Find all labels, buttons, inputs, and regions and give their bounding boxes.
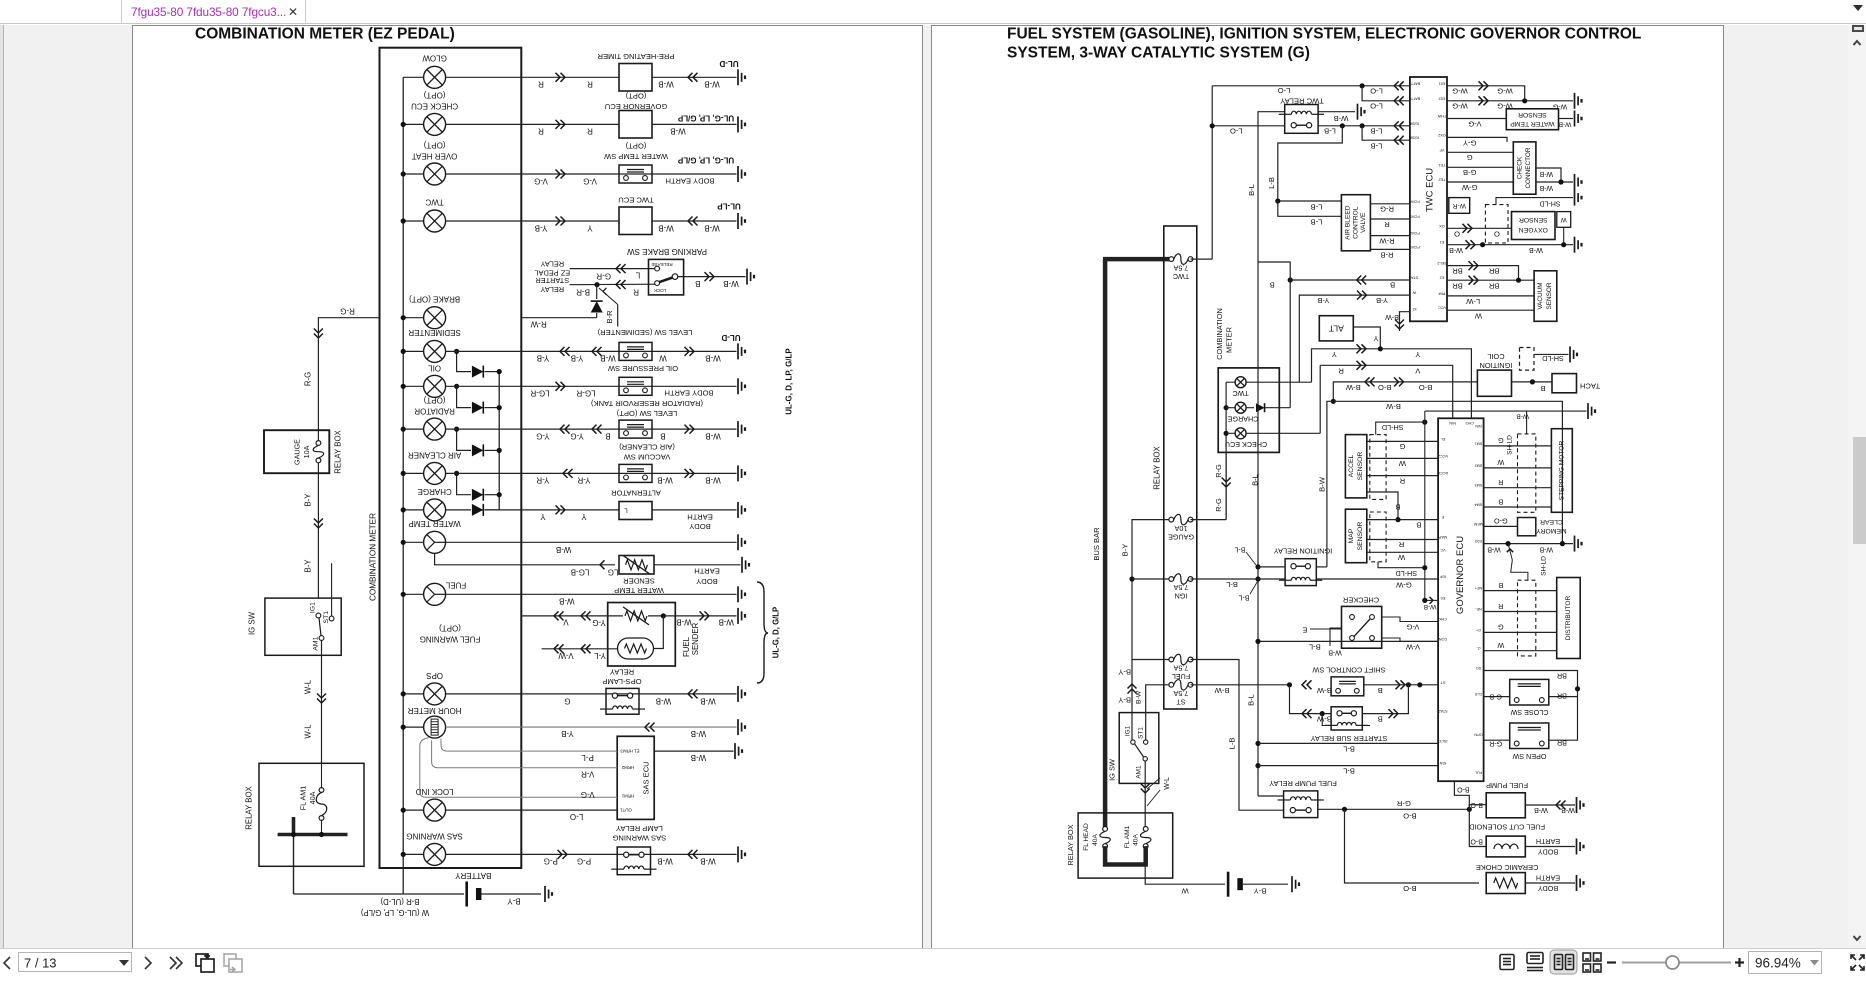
svg-text:LAMP RELAY: LAMP RELAY (616, 824, 663, 833)
svg-text:BODY: BODY (689, 522, 711, 531)
bus bar relay box (278, 833, 348, 837)
oil pressure sw (619, 377, 652, 395)
svg-text:NE-: NE- (1474, 607, 1481, 611)
wire Y row (1312, 349, 1472, 419)
svg-text:BODY EARTH: BODY EARTH (665, 177, 714, 186)
svg-text:ACCEL: ACCEL (1348, 454, 1355, 477)
ig sw right page (1119, 713, 1159, 784)
svg-text:B: B (1395, 503, 1400, 512)
svg-text:NIN: NIN (1449, 421, 1456, 425)
svg-text:ALTERNATOR: ALTERNATOR (611, 489, 661, 498)
ground CHARGE (738, 502, 745, 518)
wire solenoid left (1469, 809, 1486, 846)
wire L-B down to air bleed (1278, 126, 1343, 201)
wires b-l isc (1255, 741, 1260, 746)
lamp row y=386.3 (403, 385, 423, 387)
ground twc relay (1358, 104, 1365, 120)
svg-text:UL-G, LP, G/LP: UL-G, LP, G/LP (677, 156, 734, 165)
lamp row y=124.4 (403, 123, 423, 125)
wires air bleed to ecu (1370, 203, 1410, 205)
open sw (1510, 723, 1549, 749)
bus bar right page (1103, 259, 1108, 829)
svg-text:METER: METER (1225, 327, 1234, 353)
lamp row y=174.0 (403, 173, 423, 175)
svg-text:IG: IG (1412, 307, 1416, 311)
fl am1 fuse (1140, 827, 1151, 849)
wire fuel pump relay to solenoids (1318, 808, 1470, 810)
svg-text:ST: ST (1440, 680, 1446, 684)
wire stepping shield up (1526, 411, 1528, 434)
wire G-O memory (1484, 525, 1518, 527)
svg-text:W: W (1560, 216, 1567, 223)
diode branch y=450.4 (457, 429, 471, 450)
svg-text:Y-B: Y-B (571, 354, 584, 363)
svg-text:B-O: B-O (1457, 786, 1470, 793)
fl head fuse (1100, 827, 1111, 849)
svg-text:L: L (624, 507, 628, 514)
svg-text:TWC: TWC (425, 198, 443, 207)
lamp row y=221.0 (403, 220, 423, 222)
relay box left page (259, 763, 364, 866)
svg-text:Y-L: Y-L (594, 651, 606, 660)
wire fuel pump relay coil left (1258, 795, 1284, 797)
wire W-B E1 (1447, 244, 1573, 246)
svg-text:PARKING BRAKE SW: PARKING BRAKE SW (627, 247, 707, 256)
svg-text:W-B: W-B (1449, 246, 1463, 255)
svg-text:GOVERNOR ECU: GOVERNOR ECU (605, 102, 667, 111)
wire sas hrm3 (441, 739, 617, 752)
svg-text:B-R (UL-D): B-R (UL-D) (380, 897, 419, 906)
wire W-L ig out (1144, 761, 1146, 829)
wire FUEL row (446, 593, 737, 595)
wire starter sub coil (1322, 714, 1331, 726)
svg-text:L-B: L-B (1371, 127, 1383, 136)
svg-text:SAS WARNING: SAS WARNING (406, 832, 463, 841)
svg-text:CHECK ECU: CHECK ECU (1225, 440, 1267, 449)
svg-text:B-O: B-O (1403, 884, 1417, 893)
wire b-l to relay coils (1258, 640, 1438, 642)
ground battery right page (1292, 876, 1299, 892)
svg-text:B-Y: B-Y (1121, 544, 1130, 557)
wires map to ecu (1367, 519, 1398, 521)
fuel sender box (608, 603, 676, 667)
svg-text:W-B: W-B (658, 80, 673, 89)
svg-text:Y-B: Y-B (1317, 296, 1329, 305)
wire O ox (1447, 227, 1512, 229)
svg-text:W-B: W-B (657, 857, 672, 866)
svg-text:CLS: CLS (1474, 692, 1482, 696)
svg-text:CHARGE: CHARGE (1227, 415, 1258, 424)
svg-text:R: R (1498, 478, 1503, 487)
svg-text:BATTERY: BATTERY (455, 871, 492, 880)
svg-text:W-B: W-B (691, 729, 706, 738)
svg-text:W-G: W-G (1452, 102, 1468, 111)
svg-text:BODY EARTH: BODY EARTH (664, 389, 713, 398)
svg-text:IGNITION RELAY: IGNITION RELAY (1274, 547, 1333, 556)
oxygen W connector (1557, 212, 1571, 228)
combination meter box right page (1218, 368, 1279, 453)
rotate ccw icon (196, 954, 214, 973)
svg-text:L-B: L-B (1371, 141, 1383, 150)
ground fuel pump (1577, 797, 1584, 813)
svg-text:G-W: G-W (1395, 580, 1411, 589)
svg-text:W-B: W-B (1516, 413, 1529, 420)
svg-text:FUEL: FUEL (682, 636, 691, 657)
svg-text:GAUGE: GAUGE (1168, 532, 1194, 541)
ig sw box left (265, 598, 341, 655)
menu caret top right (1853, 5, 1863, 11)
svg-text:LG-R: LG-R (530, 389, 549, 398)
wire gauge fuse to R-G (1191, 519, 1227, 521)
wire solenoid ground (1525, 846, 1575, 848)
svg-text:COMBINATION METER (EZ PEDAL): COMBINATION METER (EZ PEDAL) (195, 26, 455, 43)
svg-text:STA2: STA2 (1438, 709, 1447, 713)
wire ign fuse to relay coil (1191, 578, 1259, 580)
diode branch y=407.6 (457, 386, 471, 407)
svg-text:B-O: B-O (1470, 838, 1483, 845)
ground check connector (1575, 174, 1582, 190)
svg-text:TACH: TACH (1580, 381, 1600, 390)
wire checker v-w (1382, 638, 1438, 641)
svg-text:B: B (1390, 281, 1395, 290)
svg-text:B-R: B-R (576, 288, 590, 297)
wires accel to ecu (1367, 440, 1438, 442)
wire B-W st (1146, 685, 1169, 740)
svg-text:(OPT): (OPT) (439, 624, 461, 633)
svg-text:W-B: W-B (704, 80, 719, 89)
governor ecu (1438, 418, 1484, 781)
wires check connector (1447, 137, 1507, 142)
svg-text:B: B (1498, 497, 1503, 506)
right scrollbar (1848, 25, 1866, 948)
vaccum sw (619, 464, 652, 482)
level sw sedimenter (619, 342, 652, 360)
page combo box (19, 953, 132, 972)
svg-text:L-W: L-W (1465, 297, 1480, 306)
wire to battery right page (1145, 865, 1225, 885)
left page sheet (132, 25, 923, 948)
wire twc fuse to L-O (1191, 258, 1213, 260)
svg-text:IGN: IGN (1175, 592, 1188, 601)
svg-text:10A: 10A (1174, 524, 1187, 533)
wire W-G row1 (1447, 86, 1525, 101)
alternator box (619, 502, 652, 520)
wire SO to switches (1484, 671, 1578, 741)
svg-text:DISTRIBUTOR: DISTRIBUTOR (1565, 595, 1572, 640)
wire choke ground (1525, 882, 1575, 884)
svg-text:SO: SO (1476, 666, 1482, 670)
svg-text:W-B: W-B (1539, 184, 1553, 191)
svg-text:Y-B: Y-B (535, 224, 548, 233)
zoom slider (1622, 962, 1731, 964)
ground FUEL (738, 586, 745, 602)
svg-text:OX: OX (1439, 224, 1445, 228)
zoom minus (1607, 961, 1616, 963)
wire shield to ecu (1425, 599, 1438, 601)
svg-text:SH-LD: SH-LD (1396, 569, 1418, 578)
svg-text:W (UL-G, LP, G/LP): W (UL-G, LP, G/LP) (360, 908, 429, 917)
svg-text:BR: BR (1557, 672, 1567, 681)
svg-text:Y-B: Y-B (561, 729, 574, 738)
svg-text:STEPPING MOTOR: STEPPING MOTOR (1558, 440, 1565, 500)
svg-text:W-L: W-L (304, 724, 313, 739)
wire bus to battery (294, 893, 404, 895)
svg-text:B-L: B-L (1343, 767, 1355, 776)
wire shift control feed (1191, 684, 1290, 686)
relay box fuse column (1164, 226, 1197, 709)
wire sas hrm2 (432, 741, 618, 768)
svg-text:LEVEL SW (SEDIMENTER): LEVEL SW (SEDIMENTER) (597, 328, 692, 337)
svg-text:CLOSE SW: CLOSE SW (1510, 708, 1548, 717)
svg-text:FCM2: FCM2 (1409, 231, 1419, 235)
ignition relay (1285, 559, 1316, 586)
svg-text:IGF: IGF (1439, 575, 1446, 579)
svg-text:G+: G+ (1475, 628, 1481, 632)
svg-text:V-G: V-G (534, 177, 548, 186)
sas warning lamp relay (617, 847, 650, 875)
svg-text:W-B: W-B (670, 127, 685, 136)
svg-text:W-B: W-B (658, 224, 673, 233)
svg-text:W-B: W-B (1561, 806, 1575, 815)
svg-text:CONTROL: CONTROL (1352, 206, 1359, 239)
svg-text:P-G: P-G (577, 857, 591, 866)
svg-text:W: W (1397, 553, 1405, 562)
svg-text:B-W: B-W (1385, 402, 1401, 411)
W-R box (1449, 198, 1470, 214)
ground W-G (1575, 93, 1582, 109)
wire thick to twc fuse (1103, 257, 1169, 262)
svg-text:ST1: ST1 (1137, 727, 1144, 739)
svg-text:R-W: R-W (1379, 237, 1395, 246)
ground E1 (1575, 237, 1582, 253)
svg-text:BR: BR (1452, 281, 1463, 290)
tach box (1552, 374, 1577, 393)
wire b-l to relay contact (1258, 566, 1285, 568)
svg-text:BATT2: BATT2 (1409, 96, 1421, 100)
svg-text:L-B: L-B (1311, 202, 1323, 211)
svg-text:W-B: W-B (1328, 649, 1342, 656)
svg-text:O: O (1454, 229, 1460, 238)
wire shield to ground top (1425, 410, 1587, 412)
svg-text:RELAY: RELAY (540, 260, 564, 269)
wire sas hrm1 (420, 738, 617, 798)
svg-text:Y: Y (581, 512, 587, 521)
svg-text:IG SW: IG SW (1108, 759, 1117, 781)
diode branch y=494.7 (457, 473, 471, 494)
oxygen shield box (1485, 205, 1508, 243)
stepping shield (1518, 434, 1536, 512)
svg-text:OX2: OX2 (1438, 133, 1446, 137)
svg-text:B-R: B-R (605, 310, 614, 324)
svg-text:B-Y: B-Y (507, 897, 521, 906)
svg-text:UL-D: UL-D (719, 59, 738, 68)
wire L-B second pin (1362, 126, 1410, 140)
svg-text:R: R (587, 80, 593, 89)
ground SEDIMENTER (738, 343, 745, 359)
pre-heating timer (619, 64, 652, 92)
ground CHECK ECU (738, 116, 745, 132)
wire sensor ground (1559, 118, 1574, 120)
bottom status bar (0, 948, 1866, 976)
svg-text:W-B: W-B (1539, 546, 1553, 553)
wire relay contact up B-W (1316, 566, 1327, 568)
lamp row y=429.1 (403, 428, 423, 430)
lamp row y=854.4 (403, 853, 423, 855)
wire close sw (1484, 696, 1510, 698)
svg-text:Y: Y (540, 512, 546, 521)
shift control sw (1331, 677, 1364, 696)
svg-text:G: G (564, 696, 570, 705)
svg-text:W: W (659, 354, 667, 363)
accel sensor (1345, 435, 1366, 498)
svg-text:L-O: L-O (1370, 87, 1383, 96)
svg-text:VCC: VCC (1438, 306, 1446, 310)
rotate cw icon (gray) (224, 954, 242, 972)
oxygen sensor (1512, 212, 1556, 240)
lamp row y=693.9 (403, 693, 423, 695)
fuse GAUGE 10A (1169, 514, 1193, 525)
svg-text:EL: EL (1441, 437, 1446, 441)
wire W-L (321, 640, 323, 763)
svg-text:7 / 13: 7 / 13 (24, 956, 57, 971)
wire governor ecu B-O out (1454, 781, 1469, 809)
svg-text:V: V (563, 618, 569, 627)
wire SAS WARNING row (446, 853, 737, 855)
svg-text:L-B: L-B (1267, 177, 1276, 189)
wire AIR CLEANER row (446, 472, 737, 474)
fuse FUEL 7.5A (1169, 654, 1193, 665)
svg-text:B-L: B-L (1234, 546, 1245, 553)
svg-text:G-R: G-R (1396, 799, 1410, 808)
svg-text:W-L: W-L (304, 679, 313, 694)
svg-text:B-W: B-W (1316, 686, 1332, 695)
svg-text:B-L: B-L (1247, 184, 1256, 196)
svg-text:W-B: W-B (676, 618, 691, 627)
svg-text:G: G (1399, 442, 1405, 451)
svg-text:EARTH: EARTH (694, 567, 720, 576)
check connector (1513, 142, 1536, 194)
svg-text:SEDIMENTER: SEDIMENTER (408, 328, 461, 337)
wire WATER TEMP row (446, 541, 737, 543)
starter sub relay (1331, 707, 1362, 730)
svg-text:B-W: B-W (1136, 690, 1143, 704)
lamp row y=351.4 (403, 350, 423, 352)
svg-text:LG: LG (608, 568, 619, 577)
svg-text:B-W: B-W (1316, 715, 1332, 724)
diode CHARGE inline (446, 509, 471, 511)
wire open sw (1484, 739, 1510, 741)
svg-text:W-B: W-B (718, 618, 733, 627)
svg-text:EARTH: EARTH (687, 513, 713, 522)
svg-text:B: B (1378, 715, 1383, 724)
fuse ST 7.5A (1169, 680, 1193, 691)
svg-text:Y-G: Y-G (536, 432, 550, 441)
wire B-W ig stub (1400, 312, 1410, 331)
svg-text:V-W: V-W (558, 651, 574, 660)
accel shield (1370, 435, 1386, 500)
svg-text:40A: 40A (308, 791, 317, 804)
svg-text:SH-LD: SH-LD (1382, 423, 1404, 432)
svg-text:(OPT): (OPT) (423, 91, 445, 100)
fuse TWC 7.5A (1169, 254, 1193, 265)
svg-text:G-R: G-R (1489, 740, 1502, 747)
svg-text:EARTH: EARTH (1536, 837, 1560, 846)
svg-text:WATER TEMP: WATER TEMP (614, 586, 664, 595)
wire accel B (1367, 492, 1438, 520)
svg-text:B-W: B-W (1214, 686, 1230, 695)
svg-text:Y-R: Y-R (577, 476, 590, 485)
wire CHECK ECU row (446, 123, 737, 125)
svg-text:AM1: AM1 (313, 636, 320, 650)
distributor shield arrow (1508, 544, 1528, 581)
wire BR SEL2 (1447, 266, 1519, 281)
wire check connector ground (1536, 181, 1573, 183)
close sw (1510, 679, 1549, 705)
svg-text:B-L: B-L (1247, 694, 1256, 706)
svg-text:B-O: B-O (1470, 801, 1483, 808)
svg-text:V-G: V-G (1406, 623, 1419, 632)
ground SAS WARNING (738, 846, 745, 862)
wire fuel pump ground (1525, 804, 1575, 806)
svg-text:SH-LD: SH-LD (1507, 435, 1514, 455)
svg-text:R: R (587, 127, 593, 136)
svg-text:OXYGEN: OXYGEN (1519, 226, 1548, 233)
svg-text:OPS-LAMP: OPS-LAMP (602, 677, 641, 686)
meter internal bus (1225, 382, 1227, 519)
svg-text:GOVERNOR ECU: GOVERNOR ECU (1455, 536, 1466, 614)
wire b-o down ceramic (1345, 809, 1480, 883)
wire parking B to ground (678, 276, 746, 278)
svg-text:OVER HEAT: OVER HEAT (412, 152, 458, 161)
wire lamp feed bus (402, 77, 404, 894)
twc ecu (1410, 77, 1447, 321)
svg-text:G-B: G-B (1463, 168, 1477, 177)
svg-text:R: R (1399, 476, 1405, 485)
svg-text:SH-LD: SH-LD (1542, 354, 1564, 363)
svg-text:RELAY BOX: RELAY BOX (245, 785, 254, 829)
svg-text:UL-G, D, G/LP: UL-G, D, G/LP (772, 607, 781, 659)
svg-text:BR: BR (1452, 267, 1463, 276)
svg-text:SENDER: SENDER (623, 577, 655, 586)
svg-text:LG-B: LG-B (571, 568, 590, 577)
wire branch to B net (1258, 262, 1290, 408)
svg-text:RELAY BOX: RELAY BOX (1066, 824, 1075, 865)
wire SH-LD oxygen (1496, 198, 1573, 205)
svg-text:SHIFT CONTROL SW: SHIFT CONTROL SW (1312, 666, 1385, 675)
svg-text:(OPT): (OPT) (625, 92, 646, 101)
svg-text:IGSB: IGSB (1409, 136, 1419, 140)
svg-text:B: B (1378, 686, 1383, 695)
ground RADIATOR (738, 421, 745, 437)
relay box right page (1078, 813, 1173, 878)
svg-text:B-Y: B-Y (304, 559, 313, 573)
wire fuel sender lower (654, 616, 664, 649)
alt box (1319, 316, 1353, 341)
fuse IGN 7.5A (1169, 574, 1193, 585)
wire alt to Y row (1353, 327, 1380, 349)
svg-text:B: B (1540, 384, 1545, 393)
svg-text:W-G: W-G (1497, 87, 1513, 96)
svg-text:R: R (1498, 602, 1503, 611)
svg-text:R-G: R-G (1380, 205, 1394, 214)
svg-text:NIN: NIN (1475, 424, 1482, 428)
svg-text:R: R (633, 287, 639, 296)
svg-text:COMBINATION METER: COMBINATION METER (369, 513, 378, 601)
svg-text:(OPT): (OPT) (625, 142, 646, 151)
svg-text:FL AM1: FL AM1 (1124, 825, 1131, 848)
svg-text:IGN: IGN (1439, 761, 1446, 765)
svg-text:TWC RELAY: TWC RELAY (1280, 97, 1324, 106)
